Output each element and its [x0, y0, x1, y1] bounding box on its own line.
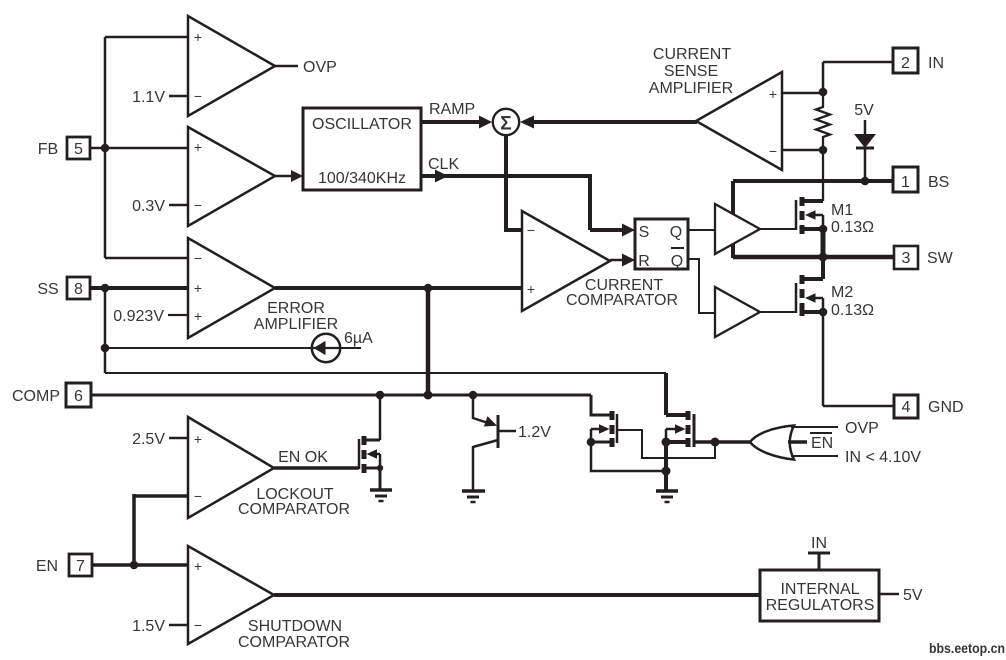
wire shutdown output to regulators — [274, 593, 760, 597]
wire comparator to oscillator with arrow — [275, 175, 294, 178]
wire lockout minus to EN — [134, 494, 188, 498]
junction minus dot — [819, 146, 828, 155]
svg-text:R: R — [638, 253, 650, 270]
junction SS dot — [101, 284, 110, 293]
wire SS to error amp — [90, 286, 188, 290]
svg-text:1: 1 — [901, 174, 910, 191]
wire summer to current comparator minus — [504, 135, 508, 231]
op-amp U4 current comparator — [522, 211, 610, 311]
svg-text:5: 5 — [74, 141, 83, 158]
svg-text:−: − — [527, 222, 535, 238]
svg-text:−: − — [194, 88, 202, 104]
svg-text:0.13Ω: 0.13Ω — [831, 219, 874, 236]
junction dots on COMP line — [376, 391, 385, 400]
svg-text:EN: EN — [36, 558, 58, 575]
svg-text:6µA: 6µA — [344, 330, 373, 347]
junction FB dot — [101, 144, 110, 153]
svg-text:+: + — [194, 280, 202, 296]
junction diode-BS dot — [861, 177, 870, 186]
wire SS net lower rail — [105, 372, 666, 374]
svg-text:COMPARATOR: COMPARATOR — [566, 292, 678, 309]
wire IN lt 4.10V input — [791, 455, 838, 457]
svg-text:5V: 5V — [903, 587, 923, 604]
wire comparator to latch R with arrow — [610, 259, 627, 262]
svg-text:Q: Q — [671, 253, 683, 270]
svg-text:S: S — [639, 224, 650, 241]
svg-text:1.1V: 1.1V — [132, 89, 165, 106]
svg-text:1.2V: 1.2V — [518, 424, 551, 441]
svg-text:+: + — [194, 431, 202, 447]
transistor M2 — [821, 257, 825, 279]
driver low side — [715, 287, 760, 337]
svg-text:0.13Ω: 0.13Ω — [831, 302, 874, 319]
transistor Q1 1.2V clamp — [472, 395, 475, 419]
svg-text:+: + — [194, 29, 202, 45]
svg-text:7: 7 — [76, 558, 85, 575]
ground M3 — [370, 488, 392, 492]
wire OVP output — [275, 65, 298, 68]
svg-text:SENSE: SENSE — [664, 63, 718, 80]
current source 6uA — [104, 288, 107, 373]
wire RAMP — [421, 120, 480, 124]
svg-text:+: + — [769, 86, 777, 102]
svg-text:M1: M1 — [831, 202, 853, 219]
summing junction — [493, 109, 519, 135]
svg-text:IN < 4.10V: IN < 4.10V — [845, 449, 921, 466]
svg-text:CURRENT: CURRENT — [653, 46, 731, 63]
svg-text:BS: BS — [928, 174, 949, 191]
pin BS 1 — [733, 179, 893, 183]
wire 0.923V stub — [168, 314, 188, 316]
wire OVP input — [791, 426, 838, 428]
svg-text:+: + — [194, 308, 202, 324]
svg-text:2.5V: 2.5V — [132, 431, 165, 448]
svg-text:100/340KHz: 100/340KHz — [318, 170, 406, 187]
wire comp node vertical — [426, 288, 431, 395]
ground clamp — [656, 489, 678, 493]
svg-text:bbs.eetop.cn: bbs.eetop.cn — [929, 640, 1005, 656]
wire 2.5V stub — [169, 437, 188, 440]
svg-text:COMPARATOR: COMPARATOR — [238, 634, 350, 651]
svg-text:GND: GND — [928, 399, 964, 416]
wire latch Qbar to low driver — [688, 259, 715, 313]
svg-text:+: + — [194, 558, 202, 574]
wire 0.3V stub — [169, 204, 188, 207]
svg-text:1.5V: 1.5V — [132, 618, 165, 635]
svg-text:5V: 5V — [854, 102, 874, 119]
svg-text:2: 2 — [901, 55, 910, 72]
pin IN 2 — [823, 61, 893, 64]
svg-text:−: − — [769, 143, 777, 159]
svg-text:OVP: OVP — [303, 59, 337, 76]
svg-text:SW: SW — [927, 250, 954, 267]
svg-text:RAMP: RAMP — [429, 101, 475, 118]
svg-text:+: + — [527, 281, 535, 297]
wire COMP line — [91, 394, 591, 397]
svg-text:SS: SS — [37, 281, 58, 298]
svg-text:−: − — [194, 250, 202, 266]
svg-text:OSCILLATOR: OSCILLATOR — [312, 116, 412, 133]
diode bootstrap — [864, 120, 867, 135]
svg-text:−: − — [194, 488, 202, 504]
transistor M1 — [760, 228, 796, 230]
wire latch Q to driver — [688, 229, 715, 231]
svg-text:OVP: OVP — [845, 420, 879, 437]
wire error amp output to current comparator — [275, 286, 522, 290]
svg-text:AMPLIFIER: AMPLIFIER — [649, 80, 733, 97]
transistor M4 comp clamp left — [591, 395, 612, 415]
svg-text:COMPARATOR: COMPARATOR — [238, 501, 350, 518]
svg-text:−: − — [194, 617, 202, 633]
svg-text:0.923V: 0.923V — [113, 308, 164, 325]
wire 1.5V stub — [169, 624, 188, 627]
svg-text:−: − — [194, 197, 202, 213]
svg-text:IN: IN — [928, 55, 944, 72]
svg-text:Q: Q — [670, 224, 682, 241]
wire current sense output into summer — [520, 116, 534, 129]
junction error output dot — [424, 284, 433, 293]
oscillator block — [303, 108, 421, 190]
svg-text:+: + — [194, 139, 202, 155]
transistor M5 comp clamp right — [666, 413, 688, 417]
svg-text:EN: EN — [811, 435, 833, 452]
gate OR shutdown logic — [694, 440, 750, 444]
svg-text:ERROR: ERROR — [267, 300, 325, 317]
wire current sense minus input — [782, 149, 823, 152]
svg-text:3: 3 — [902, 250, 911, 267]
svg-text:REGULATORS: REGULATORS — [766, 597, 875, 614]
svg-text:FB: FB — [38, 141, 58, 158]
op-amp U5 error amplifier — [188, 238, 275, 338]
latch SR — [635, 219, 688, 269]
svg-text:INTERNAL: INTERNAL — [780, 581, 859, 598]
svg-text:COMP: COMP — [12, 388, 60, 405]
wire BS to driver top — [731, 181, 735, 214]
wire clamp gates link — [617, 430, 715, 458]
resistor current sense — [816, 92, 830, 201]
op-amp U3 current sense amplifier — [696, 72, 782, 170]
pin SW 3 — [819, 253, 828, 262]
wire SW to high driver bottom — [731, 244, 735, 258]
svg-text:CLK: CLK — [428, 156, 459, 173]
driver high side — [715, 204, 760, 254]
svg-text:AMPLIFIER: AMPLIFIER — [254, 316, 338, 333]
ground Q1 — [462, 489, 485, 493]
wire CLK — [421, 174, 590, 178]
wire 1.1V stub — [169, 95, 188, 98]
transistor M3 EN OK switch — [274, 466, 359, 470]
op-amp U7 shutdown comparator — [188, 546, 274, 644]
wire current sense plus input — [782, 92, 823, 95]
svg-text:6: 6 — [74, 388, 83, 405]
op-amp U1 OVP comparator — [188, 16, 275, 116]
op-amp U6 lockout comparator — [188, 417, 274, 518]
svg-text:4: 4 — [902, 399, 911, 416]
svg-text:8: 8 — [74, 281, 83, 298]
svg-text:IN: IN — [811, 535, 827, 552]
svg-text:M2: M2 — [831, 284, 853, 301]
wire FB net — [90, 147, 188, 150]
svg-text:Σ: Σ — [500, 114, 511, 135]
wire ENbar input — [788, 440, 807, 444]
op-amp U2 FB comparator — [188, 127, 275, 226]
wire EN line — [92, 563, 188, 567]
wire 5V output — [879, 593, 899, 596]
block internal regulators — [760, 570, 879, 621]
junction plus dot — [819, 88, 828, 97]
wire M1 source to SW — [821, 229, 826, 257]
svg-text:0.3V: 0.3V — [132, 198, 165, 215]
pin GND 4 — [822, 312, 825, 406]
svg-text:SHUTDOWN: SHUTDOWN — [248, 618, 342, 635]
svg-text:EN OK: EN OK — [278, 449, 328, 466]
